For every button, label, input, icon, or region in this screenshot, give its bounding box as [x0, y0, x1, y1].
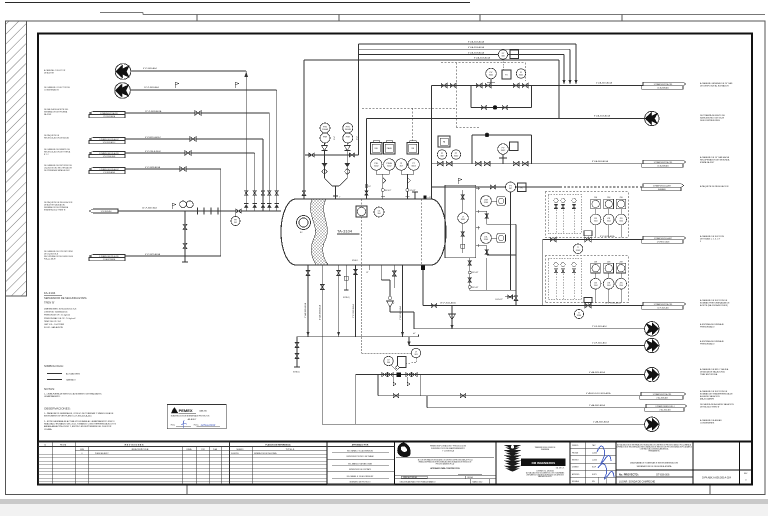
svg-text:4"-DA-3013-A51A: 4"-DA-3013-A51A: [596, 82, 613, 85]
svg-text:ZSH: ZSH: [620, 197, 623, 199]
svg-text:TREN 'B': TREN 'B': [44, 300, 55, 304]
svg-text:18"-P-3025-A51A: 18"-P-3025-A51A: [440, 302, 456, 305]
svg-text:PLANOS DE REFERENCIA: PLANOS DE REFERENCIA: [265, 444, 291, 447]
svg-text:INSTRUMENTOS VER PLANO D-OT-83: INSTRUMENTOS VER PLANO D-OT-836-005-A-04…: [44, 415, 92, 418]
svg-text:LSH: LSH: [484, 200, 488, 202]
svg-text:10"-P-3025-A51A: 10"-P-3025-A51A: [605, 302, 621, 305]
svg-text:DE DESFOGUE AL ELEVADOR: DE DESFOGUE AL ELEVADOR: [700, 85, 729, 88]
svg-text:DESCOMPRESORES: DESCOMPRESORES: [700, 120, 721, 122]
svg-text:3004B: 3004B: [345, 129, 351, 131]
svg-text:DE PRIMERA ETAPA FA-3102: DE PRIMERA ETAPA FA-3102: [44, 169, 70, 172]
svg-text:PSV: PSV: [346, 127, 351, 129]
svg-text:PEMEX EXPLORACION Y PRODUCCION: PEMEX EXPLORACION Y PRODUCCION: [430, 445, 467, 448]
svg-text:DIMENSIONES: 3073x12192mm S-S: DIMENSIONES: 3073x12192mm S-S: [44, 309, 77, 311]
svg-text:TA-3104: TA-3104: [337, 229, 353, 234]
svg-text:3104: 3104: [607, 221, 611, 223]
svg-text:DIAGRAMA DE TUBERIAS E INSTRUM: DIAGRAMA DE TUBERIAS E INSTRUMENTACION: [630, 462, 678, 465]
svg-text:ABKAM-ABKA-PPM-02-R01 Y, EMITI: ABKAM-ABKA-PPM-02-R01 Y, EMITIDO EN SEPT…: [44, 425, 112, 428]
svg-text:REALIZADO EN MARZO DEL 2012, T: REALIZADO EN MARZO DEL 2012, TOMANDO COM…: [44, 423, 116, 426]
svg-text:PRESION DE OP.: 3.5 kg/cm2: PRESION DE OP.: 3.5 kg/cm2: [44, 315, 70, 317]
svg-text:J-2006: J-2006: [592, 452, 597, 454]
svg-text:PRESURIZADO: PRESURIZADO: [700, 326, 715, 329]
svg-text:4"-AV-BO-S-3O-3024-A51A: 4"-AV-BO-S-3O-3024-A51A: [586, 392, 611, 395]
svg-text:AS-BUILT: AS-BUILT: [188, 418, 198, 421]
svg-text:NOTA 1): NOTA 1): [293, 371, 300, 374]
svg-text:CAP. VOL.: 104.719M3: CAP. VOL.: 104.719M3: [44, 323, 64, 326]
svg-text:OBSERVACIONES:: OBSERVACIONES:: [44, 407, 71, 411]
svg-text:Firma: Firma: [171, 424, 175, 427]
svg-text:3104: 3104: [607, 285, 611, 287]
svg-text:4"-AA-3004-A51A: 4"-AA-3004-A51A: [319, 304, 322, 320]
svg-text:3104: 3104: [619, 285, 623, 287]
svg-text:6"-P-3050-A54: 6"-P-3050-A54: [143, 67, 158, 70]
svg-text:DE ACEITE: DE ACEITE: [44, 72, 55, 75]
svg-text:PRESURIZADO: PRESURIZADO: [700, 343, 715, 346]
svg-text:ACTUADORES: ACTUADORES: [66, 373, 81, 376]
svg-text:NUMERO: NUMERO: [236, 449, 244, 451]
svg-text:SIMBOLOGIA:: SIMBOLOGIA:: [44, 364, 64, 368]
svg-text:A PAQUETE DE REGULACION: A PAQUETE DE REGULACION: [700, 185, 729, 188]
svg-text:0: 0: [82, 453, 83, 455]
svg-text:SUBDIRECCION DE MANTENIMIENTO: SUBDIRECCION DE MANTENIMIENTO: [431, 447, 466, 450]
svg-text:2"-DF-3012-A54: 2"-DF-3012-A54: [592, 342, 607, 345]
svg-text:PAL: PAL: [375, 147, 378, 150]
svg-text:ZSH: ZSH: [594, 197, 597, 199]
svg-text:2"-DF-3012-A54: 2"-DF-3012-A54: [399, 306, 402, 320]
svg-text:№: №: [44, 444, 46, 447]
svg-text:DE TBDAS 1, 2, 3, 4 Y: DE TBDAS 1, 2, 3, 4 Y: [700, 238, 721, 241]
svg-text:6"-P-234-E-3044: 6"-P-234-E-3044: [145, 151, 161, 153]
svg-text:ETAPA FA-3107: ETAPA FA-3107: [700, 161, 715, 164]
svg-text:APROBADO POR: APROBADO POR: [352, 444, 369, 447]
svg-text:NOTAS:: NOTAS:: [44, 387, 55, 391]
svg-text:2.- ESTE DIAGRAMA SE ACTUALIZO: 2.- ESTE DIAGRAMA SE ACTUALIZO EN BASE A…: [44, 420, 115, 423]
svg-text:PRESION MAX. DE OP.: 7.0 kg/cm: PRESION MAX. DE OP.: 7.0 kg/cm2: [44, 317, 75, 320]
svg-text:INGENIERO DE PROYECTO: INGENIERO DE PROYECTO: [350, 482, 372, 484]
svg-text:PSHH: PSHH: [387, 163, 393, 165]
svg-text:4"-AA-3024-A51A: 4"-AA-3024-A51A: [589, 371, 605, 374]
svg-text:10"-P-3024-A54: 10"-P-3024-A54: [144, 86, 160, 89]
svg-text:PAHH: PAHH: [387, 147, 393, 150]
svg-text:1.- PARA DATOS GENERALES, CODI: 1.- PARA DATOS GENERALES, CODIGO DE TUBE…: [44, 412, 114, 415]
svg-text:M-STL: M-STL: [592, 474, 597, 476]
svg-text:TEMP. DE OP.: 55C: TEMP. DE OP.: 55C: [44, 321, 62, 323]
svg-text:B Y C: B Y C: [44, 154, 50, 156]
svg-text:2"-AA-3005-A51A: 2"-AA-3005-A51A: [593, 421, 609, 424]
svg-text:REVISO:: REVISO:: [572, 459, 579, 461]
svg-text:2"-P-3022-A51A: 2"-P-3022-A51A: [352, 304, 355, 318]
svg-text:12"-P-3028-A51A: 12"-P-3028-A51A: [145, 110, 162, 113]
svg-text:NIVEL 1: NIVEL 1: [352, 260, 358, 262]
svg-text:8"-DA-3105-A51A: 8"-DA-3105-A51A: [468, 41, 485, 44]
svg-text:PSV: PSV: [323, 127, 328, 129]
svg-text:DE FA-3102 TREN 'B': DE FA-3102 TREN 'B': [700, 406, 720, 409]
svg-text:ZSH: ZSH: [607, 197, 610, 199]
svg-text:D E S C R I P C I O N: D E S C R I P C I O N: [132, 449, 149, 451]
svg-text:NOTA 1): NOTA 1): [343, 296, 350, 299]
svg-text:FLUJO: GAS-ACEITE: FLUJO: GAS-ACEITE: [44, 326, 64, 329]
svg-text:3/4": 3/4": [368, 186, 371, 188]
svg-text:FA-3104: FA-3104: [44, 291, 56, 295]
svg-text:3/4"x1/2": 3/4"x1/2": [472, 272, 479, 274]
svg-text:4"-P-3028-A51A: 4"-P-3028-A51A: [145, 166, 161, 169]
svg-text:6"-P-B510-A24-C: 6"-P-B510-A24-C: [145, 136, 162, 139]
svg-text:J-2006: J-2006: [592, 459, 597, 461]
svg-text:REV.: REV.: [744, 473, 748, 475]
svg-text:8"-P-3023-A51A: 8"-P-3023-A51A: [600, 235, 615, 238]
svg-text:304: 304: [378, 213, 381, 215]
svg-text:TRAV. ANTORCHA: TRAV. ANTORCHA: [700, 373, 718, 376]
svg-text:OT-836-006: OT-836-006: [656, 473, 670, 476]
svg-text:2"-DF-3010-A54: 2"-DF-3010-A54: [592, 325, 607, 328]
svg-text:14"-P-234-E-3044: 14"-P-234-E-3044: [103, 156, 116, 158]
svg-text:FECHA: FECHA: [60, 444, 67, 447]
svg-text:PEMEX: PEMEX: [179, 408, 193, 413]
svg-text:LUGAR: SONDA DE CAMPECHE: LUGAR: SONDA DE CAMPECHE: [619, 480, 656, 483]
svg-text:3/4"x1/2": 3/4"x1/2": [385, 190, 392, 192]
svg-text:FA-3108: FA-3108: [44, 113, 51, 116]
svg-text:8"-DA-3106-A51A: 8"-DA-3106-A51A: [594, 115, 611, 118]
svg-text:GASTADO: GASTADO: [66, 378, 76, 381]
svg-text:PSH: PSH: [323, 137, 328, 139]
svg-text:LONGITUD: 3048/3200mm: LONGITUD: 3048/3200mm: [44, 312, 68, 314]
svg-text:ZSH: ZSH: [620, 261, 623, 263]
svg-text:3004A: 3004A: [322, 128, 328, 131]
svg-text:(BA-3104A/B/F): (BA-3104A/B/F): [700, 398, 714, 401]
svg-text:ACEITE (BA-3102A/B/C/D/E/F): ACEITE (BA-3102A/B/C/D/E/F): [700, 304, 728, 307]
svg-text:Y LOGISTICA: Y LOGISTICA: [442, 450, 455, 453]
svg-text:DISENO:: DISENO:: [572, 467, 579, 469]
svg-text:3/4": 3/4": [392, 303, 395, 305]
svg-text:DM INGENIEROS: DM INGENIEROS: [532, 461, 556, 465]
svg-text:CAIA GB.: CAIA GB.: [199, 410, 208, 413]
svg-text:301: 301: [234, 222, 237, 224]
svg-text:12/Nov/2013: 12/Nov/2013: [201, 423, 216, 427]
svg-text:4"-P-3079-A51A: 4"-P-3079-A51A: [145, 253, 161, 256]
svg-text:2"-AA-3002-A51A: 2"-AA-3002-A51A: [589, 404, 605, 407]
svg-text:PSH: PSH: [346, 137, 351, 139]
svg-text:FECHA:: FECHA:: [572, 451, 579, 454]
svg-text:APROBO:: APROBO:: [572, 473, 580, 476]
svg-text:3/4"x1/2": 3/4"x1/2": [472, 287, 479, 289]
svg-text:R E V I S I O N E S: R E V I S I O N E S: [125, 445, 144, 447]
svg-text:1-3/4"x1/2": 1-3/4"x1/2": [495, 299, 503, 301]
svg-text:3"x4": 3"x4": [334, 136, 336, 140]
svg-text:No. PROYECTO:: No. PROYECTO:: [619, 473, 639, 476]
svg-text:ZSH: ZSH: [607, 261, 610, 263]
svg-text:Fecha: Fecha: [194, 425, 199, 427]
svg-text:3104: 3104: [619, 221, 623, 223]
svg-text:ZSH: ZSH: [594, 261, 597, 263]
svg-text:T I T U L O: T I T U L O: [286, 449, 295, 451]
svg-text:3104: 3104: [594, 221, 598, 223]
svg-text:1.- LINEA FUERA DE SERVICIO AL: 1.- LINEA FUERA DE SERVICIO AL MOMENTO D…: [44, 393, 103, 396]
svg-text:ETAPA FA-3102 TREN 'B': ETAPA FA-3102 TREN 'B': [44, 209, 66, 212]
svg-text:2"-AA-3005-A51A: 2"-AA-3005-A51A: [304, 302, 307, 318]
svg-text:SEPARACION DE SEGUNDA ETAPA: SEPARACION DE SEGUNDA ETAPA: [637, 465, 672, 468]
svg-text:CONDENSADOS: CONDENSADOS: [44, 89, 60, 92]
svg-text:6"-DA-3106-A51A: 6"-DA-3106-A51A: [468, 46, 485, 49]
svg-text:1/2": 1/2": [366, 272, 369, 274]
svg-text:CICASA.: CICASA.: [44, 428, 52, 431]
svg-text:RECIRCULACION DE AGUA: RECIRCULACION DE AGUA: [44, 137, 69, 140]
svg-text:FJA-(-)-TAL/E: FJA-(-)-TAL/E: [44, 258, 56, 261]
svg-text:PLANO AS-BUILT: PLANO AS-BUILT: [95, 452, 109, 455]
svg-text:3104: 3104: [594, 285, 598, 287]
svg-text:DIBUJO:: DIBUJO:: [572, 445, 579, 447]
svg-text:d-1": d-1": [413, 333, 416, 335]
svg-text:APROBADO PARA CONSTRUCCION: APROBADO PARA CONSTRUCCION: [430, 467, 460, 470]
svg-text:14"-P-3047-A54: 14"-P-3047-A54: [142, 207, 158, 210]
svg-text:SEPARADOR DE SEGUNDA ETAPA: SEPARADOR DE SEGUNDA ETAPA: [44, 296, 87, 300]
svg-text:8"-DA-3106-A51A: 8"-DA-3106-A51A: [474, 57, 491, 60]
svg-text:8"-DA-3003-A51A: 8"-DA-3003-A51A: [592, 160, 609, 163]
svg-text:M-CP: M-CP: [592, 467, 596, 469]
svg-text:ESCALA:: ESCALA:: [572, 480, 580, 483]
svg-text:6"-DA-3108-A51A: 6"-DA-3108-A51A: [468, 51, 485, 54]
svg-text:D-PA ABK.A-836.005-A-024: D-PA ABK.A-836.005-A-024: [702, 477, 732, 480]
svg-text:CONGENERES: CONGENERES: [700, 423, 715, 425]
svg-text:LEVANTAMIENTO.: LEVANTAMIENTO.: [44, 395, 61, 398]
